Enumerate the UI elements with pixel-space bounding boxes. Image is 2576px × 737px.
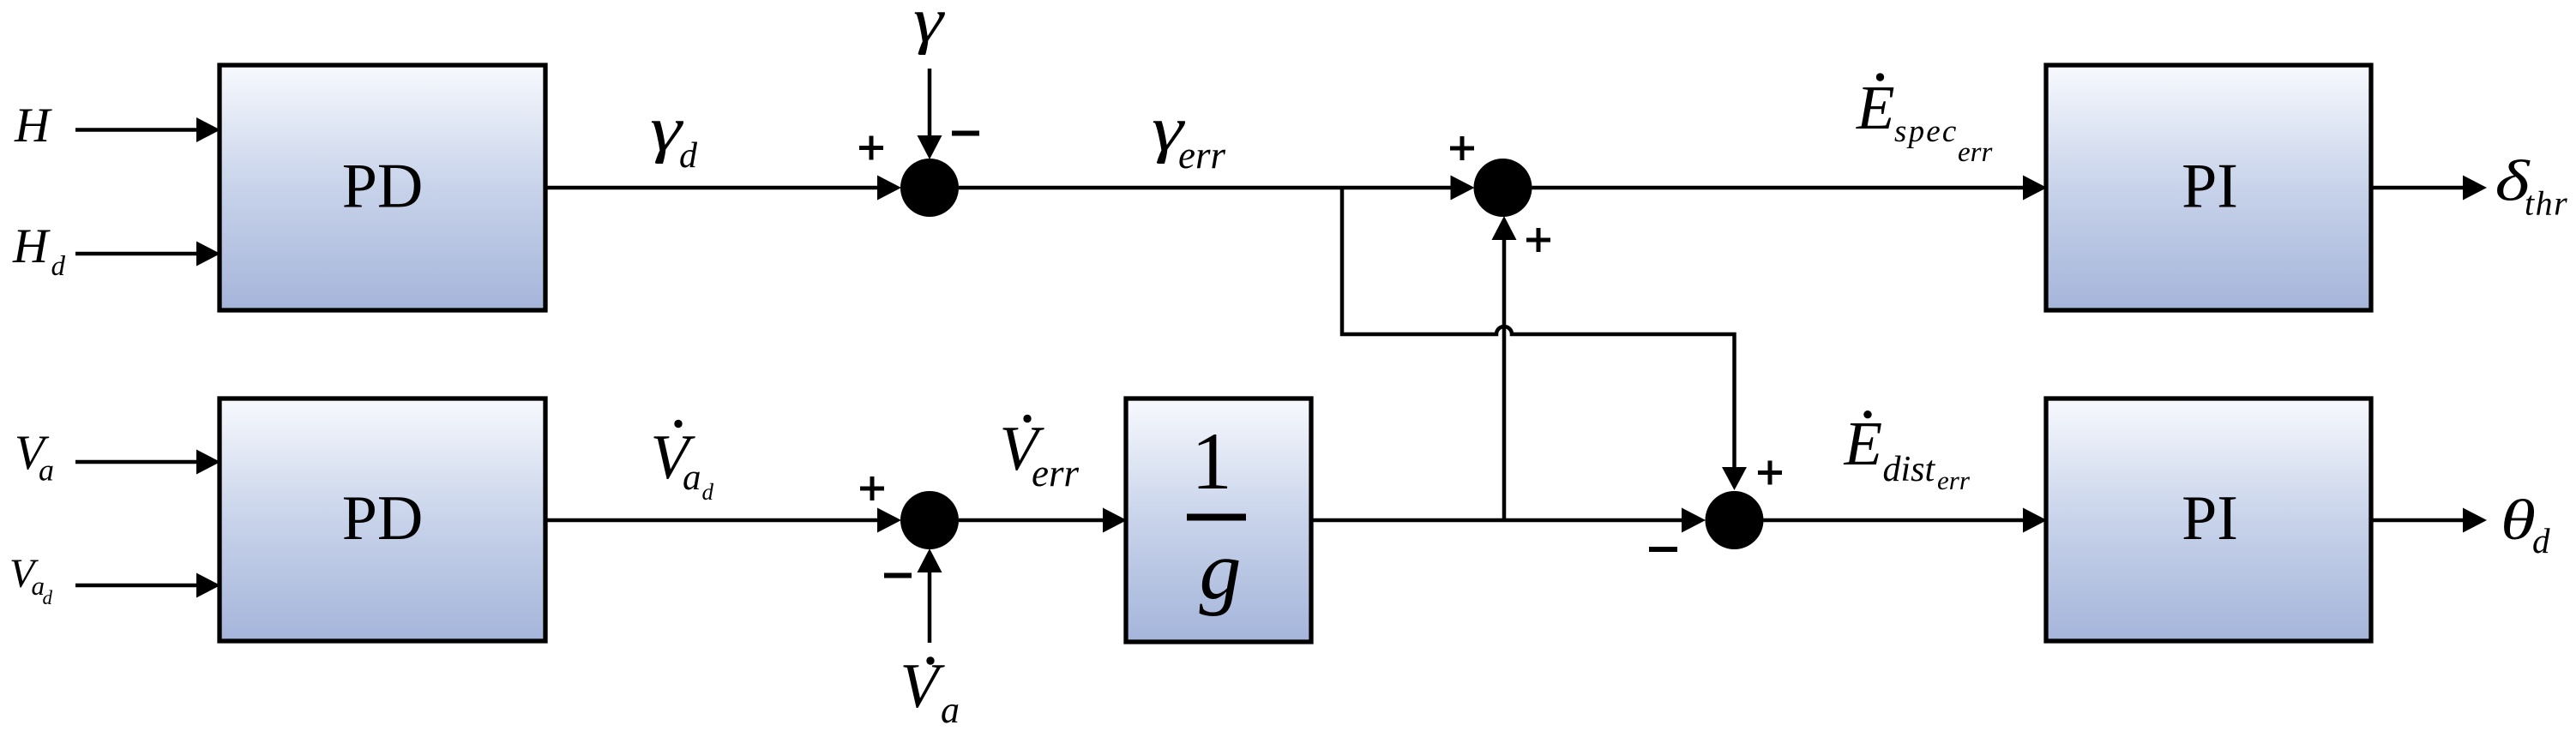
wire branch from gamma_err down and right to J4 with hop	[1342, 188, 1747, 490]
label Vdot_a_d output of PD2	[651, 420, 714, 505]
label delta_thr	[2495, 148, 2569, 223]
svg-text:PD: PD	[342, 483, 424, 554]
wire gamma drop into J1	[918, 69, 942, 159]
label gamma_d	[650, 94, 698, 176]
svg-text:E: E	[1844, 409, 1883, 478]
svg-text:a: a	[683, 458, 701, 498]
wire Vad input	[75, 573, 220, 598]
block PI1	[2046, 65, 2371, 310]
block PD1	[220, 65, 545, 310]
wire Hd input	[75, 242, 220, 267]
wire PI2 output	[2371, 508, 2487, 533]
wire PI1 output	[2371, 176, 2487, 201]
label Edot_dist_err	[1844, 409, 1971, 495]
svg-text:H: H	[12, 219, 51, 273]
sign plus at J4	[1758, 461, 1782, 485]
junction J1	[900, 159, 959, 217]
block 1/g	[1126, 398, 1311, 642]
svg-text:thr: thr	[2525, 184, 2568, 223]
svg-text:PI: PI	[2182, 152, 2238, 222]
wire J3 to 1/g	[959, 508, 1127, 533]
svg-text:d: d	[43, 587, 53, 608]
label Hd	[12, 219, 66, 282]
svg-text:a: a	[39, 453, 54, 488]
label Vad	[9, 551, 53, 608]
svg-text:a: a	[941, 689, 960, 731]
wire Vdot_a riser into J3	[918, 548, 942, 643]
label Vdot_a below J3	[900, 651, 960, 731]
sign plus left at J2	[1450, 136, 1474, 160]
svg-text:γ: γ	[913, 0, 945, 56]
wire Va input	[75, 450, 220, 475]
svg-text:PI: PI	[2182, 483, 2238, 554]
wire PD1 to J1	[545, 176, 901, 201]
sign minus at J1	[952, 131, 979, 136]
label Edot_spec_err	[1856, 73, 1992, 168]
svg-text:PD: PD	[342, 152, 424, 222]
block PD2	[220, 398, 545, 641]
svg-text:d: d	[702, 479, 714, 505]
svg-text:H: H	[14, 99, 52, 153]
junction J2	[1474, 159, 1532, 217]
junction J3	[900, 491, 959, 549]
label Va	[15, 426, 54, 488]
wire H input	[75, 117, 220, 142]
svg-text:spec: spec	[1894, 114, 1959, 149]
wire J2 to PI1	[1532, 176, 2048, 201]
svg-text:g: g	[1200, 524, 1242, 617]
label gamma_err	[1152, 94, 1225, 177]
wire J4 to PI2	[1764, 508, 2048, 533]
svg-text:d: d	[679, 136, 698, 176]
svg-text:V: V	[900, 651, 946, 722]
sign minus at J3	[884, 573, 912, 578]
label Vdot_err	[1000, 414, 1080, 494]
block PI2	[2046, 398, 2371, 641]
sign plus at J3	[860, 476, 884, 500]
wire J1 to J2	[959, 176, 1475, 201]
svg-text:err: err	[1958, 137, 1992, 168]
wire 1/g to J4	[1311, 508, 1706, 533]
sign plus below at J2	[1526, 228, 1550, 252]
svg-text:err: err	[1937, 465, 1971, 495]
label theta_d	[2501, 488, 2550, 560]
sign plus at J1	[859, 136, 883, 160]
wire riser from bottom line up to J2	[1492, 216, 1517, 520]
svg-text:d: d	[2532, 521, 2550, 560]
svg-text:d: d	[51, 251, 66, 282]
sign minus at J4	[1649, 547, 1677, 552]
junction J4	[1706, 491, 1764, 549]
svg-text:θ: θ	[2501, 488, 2536, 552]
svg-text:1: 1	[1191, 416, 1232, 506]
svg-text:dist: dist	[1883, 450, 1936, 489]
svg-text:err: err	[1032, 452, 1079, 494]
svg-text:E: E	[1856, 73, 1895, 142]
svg-text:err: err	[1178, 134, 1225, 177]
wire PD2 to J3	[545, 508, 901, 533]
